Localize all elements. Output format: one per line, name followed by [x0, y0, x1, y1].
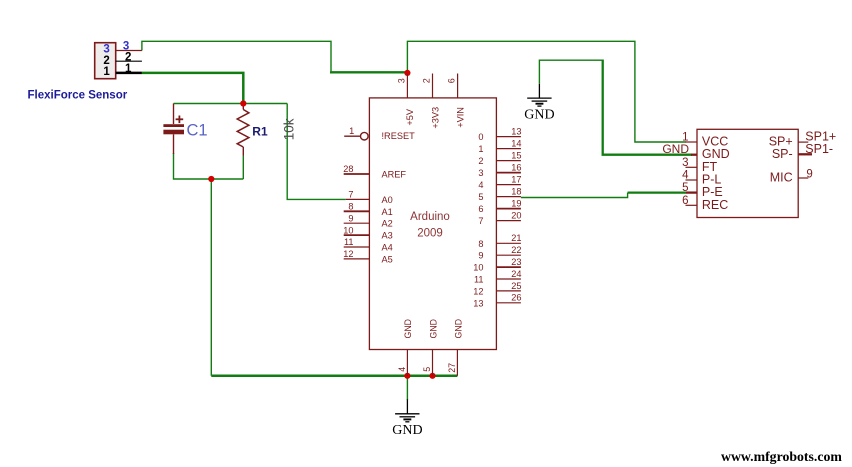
svg-text:GND: GND — [662, 142, 689, 156]
svg-text:6: 6 — [682, 195, 688, 207]
svg-text:3: 3 — [396, 78, 406, 83]
resistor R1 — [237, 104, 249, 156]
svg-text:A5: A5 — [382, 254, 393, 264]
svg-text:+5V: +5V — [405, 108, 415, 125]
wire mid GND symbol net — [539, 60, 602, 84]
Arduino pins 21-26 stubs (D8-D13) — [496, 243, 521, 302]
wire ground rail (horizontal thick) — [211, 375, 457, 378]
svg-text:3: 3 — [682, 157, 688, 169]
Arduino pin 8 A1 — [344, 210, 370, 212]
svg-text:REC: REC — [702, 198, 728, 212]
svg-text:A2: A2 — [382, 219, 393, 229]
svg-text:A0: A0 — [382, 195, 393, 205]
svg-text:1: 1 — [103, 66, 110, 78]
svg-text:+3V3: +3V3 — [430, 107, 440, 129]
Arduino pins 13-20 stubs (D0-D7) — [496, 137, 521, 221]
svg-text:21: 21 — [511, 233, 521, 243]
svg-text:24: 24 — [511, 269, 521, 279]
connector J1 FlexiForce Sensor — [95, 43, 116, 79]
wire jog segment to +5V (thick) — [330, 71, 407, 73]
svg-text:AREF: AREF — [382, 170, 407, 180]
svg-text:13: 13 — [473, 298, 483, 308]
module pin SP+ — [798, 141, 808, 143]
svg-text:8: 8 — [478, 239, 483, 249]
module pin 1 VCC — [686, 141, 698, 143]
svg-text:!RESET: !RESET — [382, 131, 416, 141]
svg-text:Arduino: Arduino — [410, 211, 450, 223]
Arduino pin numbers 13-20 — [511, 127, 521, 221]
Arduino pin labels 0-7 — [478, 132, 483, 226]
svg-text:GND: GND — [392, 423, 422, 438]
svg-text:GND: GND — [454, 319, 464, 339]
svg-text:5: 5 — [478, 192, 483, 202]
module U2 box — [697, 129, 798, 217]
junction node +5V — [404, 70, 410, 76]
svg-text:12: 12 — [343, 249, 353, 259]
svg-text:5: 5 — [422, 367, 432, 372]
svg-text:GND: GND — [524, 108, 554, 123]
svg-text:www.mfgrobots.com: www.mfgrobots.com — [721, 449, 842, 464]
Arduino pin 4 GND stub — [406, 350, 408, 376]
capacitor C1 — [163, 104, 184, 155]
connector pin 3 stub — [116, 50, 142, 52]
connector pin 2 stub — [116, 60, 142, 62]
Arduino pin 11 A4 — [344, 246, 370, 248]
svg-text:7: 7 — [348, 190, 353, 200]
svg-text:0: 0 — [478, 132, 483, 142]
svg-text:25: 25 — [511, 281, 521, 291]
svg-text:1: 1 — [349, 126, 354, 136]
wire C1 bottom lead to loop — [174, 153, 244, 179]
svg-text:10k: 10k — [281, 118, 296, 140]
wire node to A0 — [287, 104, 346, 200]
Arduino pin 12 A5 — [344, 258, 370, 260]
svg-text:+VIN: +VIN — [456, 107, 466, 128]
svg-text:SP-: SP- — [772, 147, 793, 161]
Arduino pin 1 !RESET — [344, 135, 360, 137]
Arduino pin numbers 21-26 — [511, 233, 521, 303]
svg-text:2: 2 — [103, 55, 109, 67]
wire R1 bottom lead to loop — [242, 156, 244, 180]
svg-text:10: 10 — [343, 225, 353, 235]
svg-text:4: 4 — [397, 367, 407, 372]
Arduino pin 3 +5V stub — [406, 74, 408, 98]
junction node RC bottom — [208, 176, 214, 182]
Arduino pin 6 +VIN stub — [457, 74, 459, 98]
svg-text:1: 1 — [478, 144, 483, 154]
svg-text:9: 9 — [478, 251, 483, 261]
svg-text:10: 10 — [473, 263, 483, 273]
svg-text:7: 7 — [478, 216, 483, 226]
svg-text:11: 11 — [344, 237, 354, 247]
svg-text:9: 9 — [806, 168, 812, 180]
wire RC bottom to ground rail (vertical) — [210, 179, 212, 376]
junction node sensor/R1/C1 top — [240, 100, 246, 106]
wire net VCC from sensor pin3 (top rail left) — [142, 41, 331, 71]
module pin 9 MIC — [798, 177, 808, 179]
svg-text:FlexiForce Sensor: FlexiForce Sensor — [28, 89, 128, 101]
svg-text:SP1-: SP1- — [805, 142, 833, 156]
wire RC loop top — [174, 103, 288, 105]
junction node GND pin4 — [404, 373, 410, 379]
svg-text:R1: R1 — [252, 125, 268, 139]
svg-text:5: 5 — [682, 182, 688, 194]
svg-text:2: 2 — [478, 156, 483, 166]
svg-text:19: 19 — [511, 199, 521, 209]
ground symbol bottom — [392, 399, 422, 438]
Arduino pin 28 AREF — [344, 173, 370, 175]
ground symbol middle — [524, 84, 554, 123]
junction node GND pin5 — [429, 373, 435, 379]
module pin 5 P-E — [686, 191, 697, 193]
svg-text:1: 1 — [125, 63, 132, 75]
svg-text:3: 3 — [478, 168, 483, 178]
Arduino pin 7 A0 — [346, 198, 370, 200]
svg-text:8: 8 — [348, 202, 353, 212]
IC U1 Arduino 2009 box — [369, 98, 496, 350]
wire mid GND to module GND pin (thick) — [603, 60, 692, 155]
svg-text:MIC: MIC — [770, 171, 793, 185]
svg-text:15: 15 — [511, 151, 521, 161]
Arduino pin 9 A2 — [344, 222, 370, 224]
svg-text:23: 23 — [511, 257, 521, 267]
svg-text:20: 20 — [511, 211, 521, 221]
svg-text:A3: A3 — [382, 231, 393, 241]
svg-text:11: 11 — [474, 275, 484, 285]
module pin 4 P-L — [686, 179, 698, 181]
svg-text:GND: GND — [428, 319, 438, 339]
svg-text:22: 22 — [511, 245, 521, 255]
svg-text:12: 12 — [473, 286, 483, 296]
Arduino pin 10 A3 — [344, 234, 370, 236]
wire ground rail to GND symbol — [406, 376, 408, 400]
svg-text:27: 27 — [447, 363, 457, 373]
Arduino pin 27 GND stub — [456, 350, 458, 376]
svg-text:2: 2 — [422, 78, 432, 83]
svg-text:2: 2 — [125, 51, 131, 63]
svg-text:28: 28 — [343, 164, 353, 174]
svg-text:14: 14 — [511, 139, 521, 149]
wire P-E thick segment — [628, 191, 686, 193]
wire sensor pin1 to RC node (thick) — [142, 73, 243, 104]
svg-text:9: 9 — [348, 213, 353, 223]
Arduino pin 2 +3V3 stub — [432, 74, 434, 98]
svg-text:2009: 2009 — [417, 227, 443, 239]
wire Arduino D5 to module P-E — [521, 193, 628, 198]
module pin 6 REC — [686, 204, 698, 206]
svg-text:6: 6 — [478, 204, 483, 214]
svg-text:4: 4 — [682, 170, 689, 182]
svg-text:GND: GND — [403, 319, 413, 339]
connector pin 1 stub (thick black) — [116, 72, 142, 75]
svg-text:A1: A1 — [382, 207, 393, 217]
svg-text:13: 13 — [511, 127, 521, 137]
svg-text:4: 4 — [478, 180, 483, 190]
svg-text:6: 6 — [447, 78, 457, 83]
svg-text:16: 16 — [511, 163, 521, 173]
module pin SP- (thick) — [798, 153, 812, 155]
svg-text:26: 26 — [511, 293, 521, 303]
svg-text:3: 3 — [103, 43, 109, 55]
module pin 3 FT — [686, 166, 698, 168]
svg-text:18: 18 — [511, 187, 521, 197]
svg-text:C1: C1 — [187, 122, 208, 140]
svg-text:A4: A4 — [382, 243, 393, 253]
Arduino pin 5 GND stub — [432, 350, 434, 376]
module pin GND — [691, 154, 697, 156]
svg-text:17: 17 — [511, 175, 521, 185]
wire net VCC from +5V junction to module VCC (top rail right) — [407, 41, 686, 142]
Arduino pin labels 8-13 — [473, 239, 483, 308]
